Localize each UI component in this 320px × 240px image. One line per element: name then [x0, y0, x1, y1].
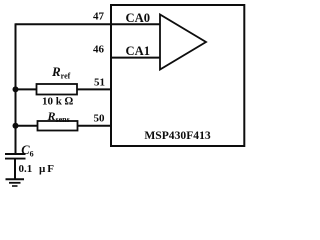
svg-text:CA1: CA1 [126, 44, 151, 58]
chip U1 MSP430F413 body [111, 5, 244, 146]
svg-text:Rsens: Rsens [47, 109, 70, 124]
wire rail to Rsens [16, 125, 38, 127]
op-amp comparator U1A inside chip [160, 15, 206, 70]
node junction dot at Rref [13, 86, 19, 92]
wire CA0 net to comparator plus input [111, 23, 160, 25]
resistor Rsens body [38, 121, 78, 131]
svg-text:47: 47 [93, 11, 105, 23]
wire Rsens to pin 50 [78, 125, 112, 127]
svg-text:46: 46 [93, 44, 105, 56]
node junction dot at Rsens [13, 123, 19, 129]
left rail wire [15, 23, 17, 154]
svg-text:0.1µF: 0.1µF [19, 163, 55, 175]
svg-text:Rref: Rref [51, 64, 71, 81]
wire rail to Rref [16, 88, 37, 90]
svg-text:51: 51 [94, 77, 105, 89]
svg-text:50: 50 [94, 113, 106, 125]
wire Rref to pin 51 [77, 88, 111, 90]
ground symbol [6, 179, 25, 186]
wire pin 47 to left rail [16, 23, 112, 25]
resistor Rref body [37, 84, 78, 95]
capacitor C6 bottom plate [5, 158, 26, 160]
svg-text:MSP430F413: MSP430F413 [144, 129, 211, 142]
capacitor C6 top plate [5, 153, 26, 155]
wire CA1 net to comparator minus input [111, 57, 160, 59]
svg-text:CA0: CA0 [126, 11, 151, 25]
svg-text:10 k Ω: 10 k Ω [42, 96, 74, 108]
svg-text:C6: C6 [21, 143, 33, 159]
wire C6 to ground [14, 159, 16, 179]
